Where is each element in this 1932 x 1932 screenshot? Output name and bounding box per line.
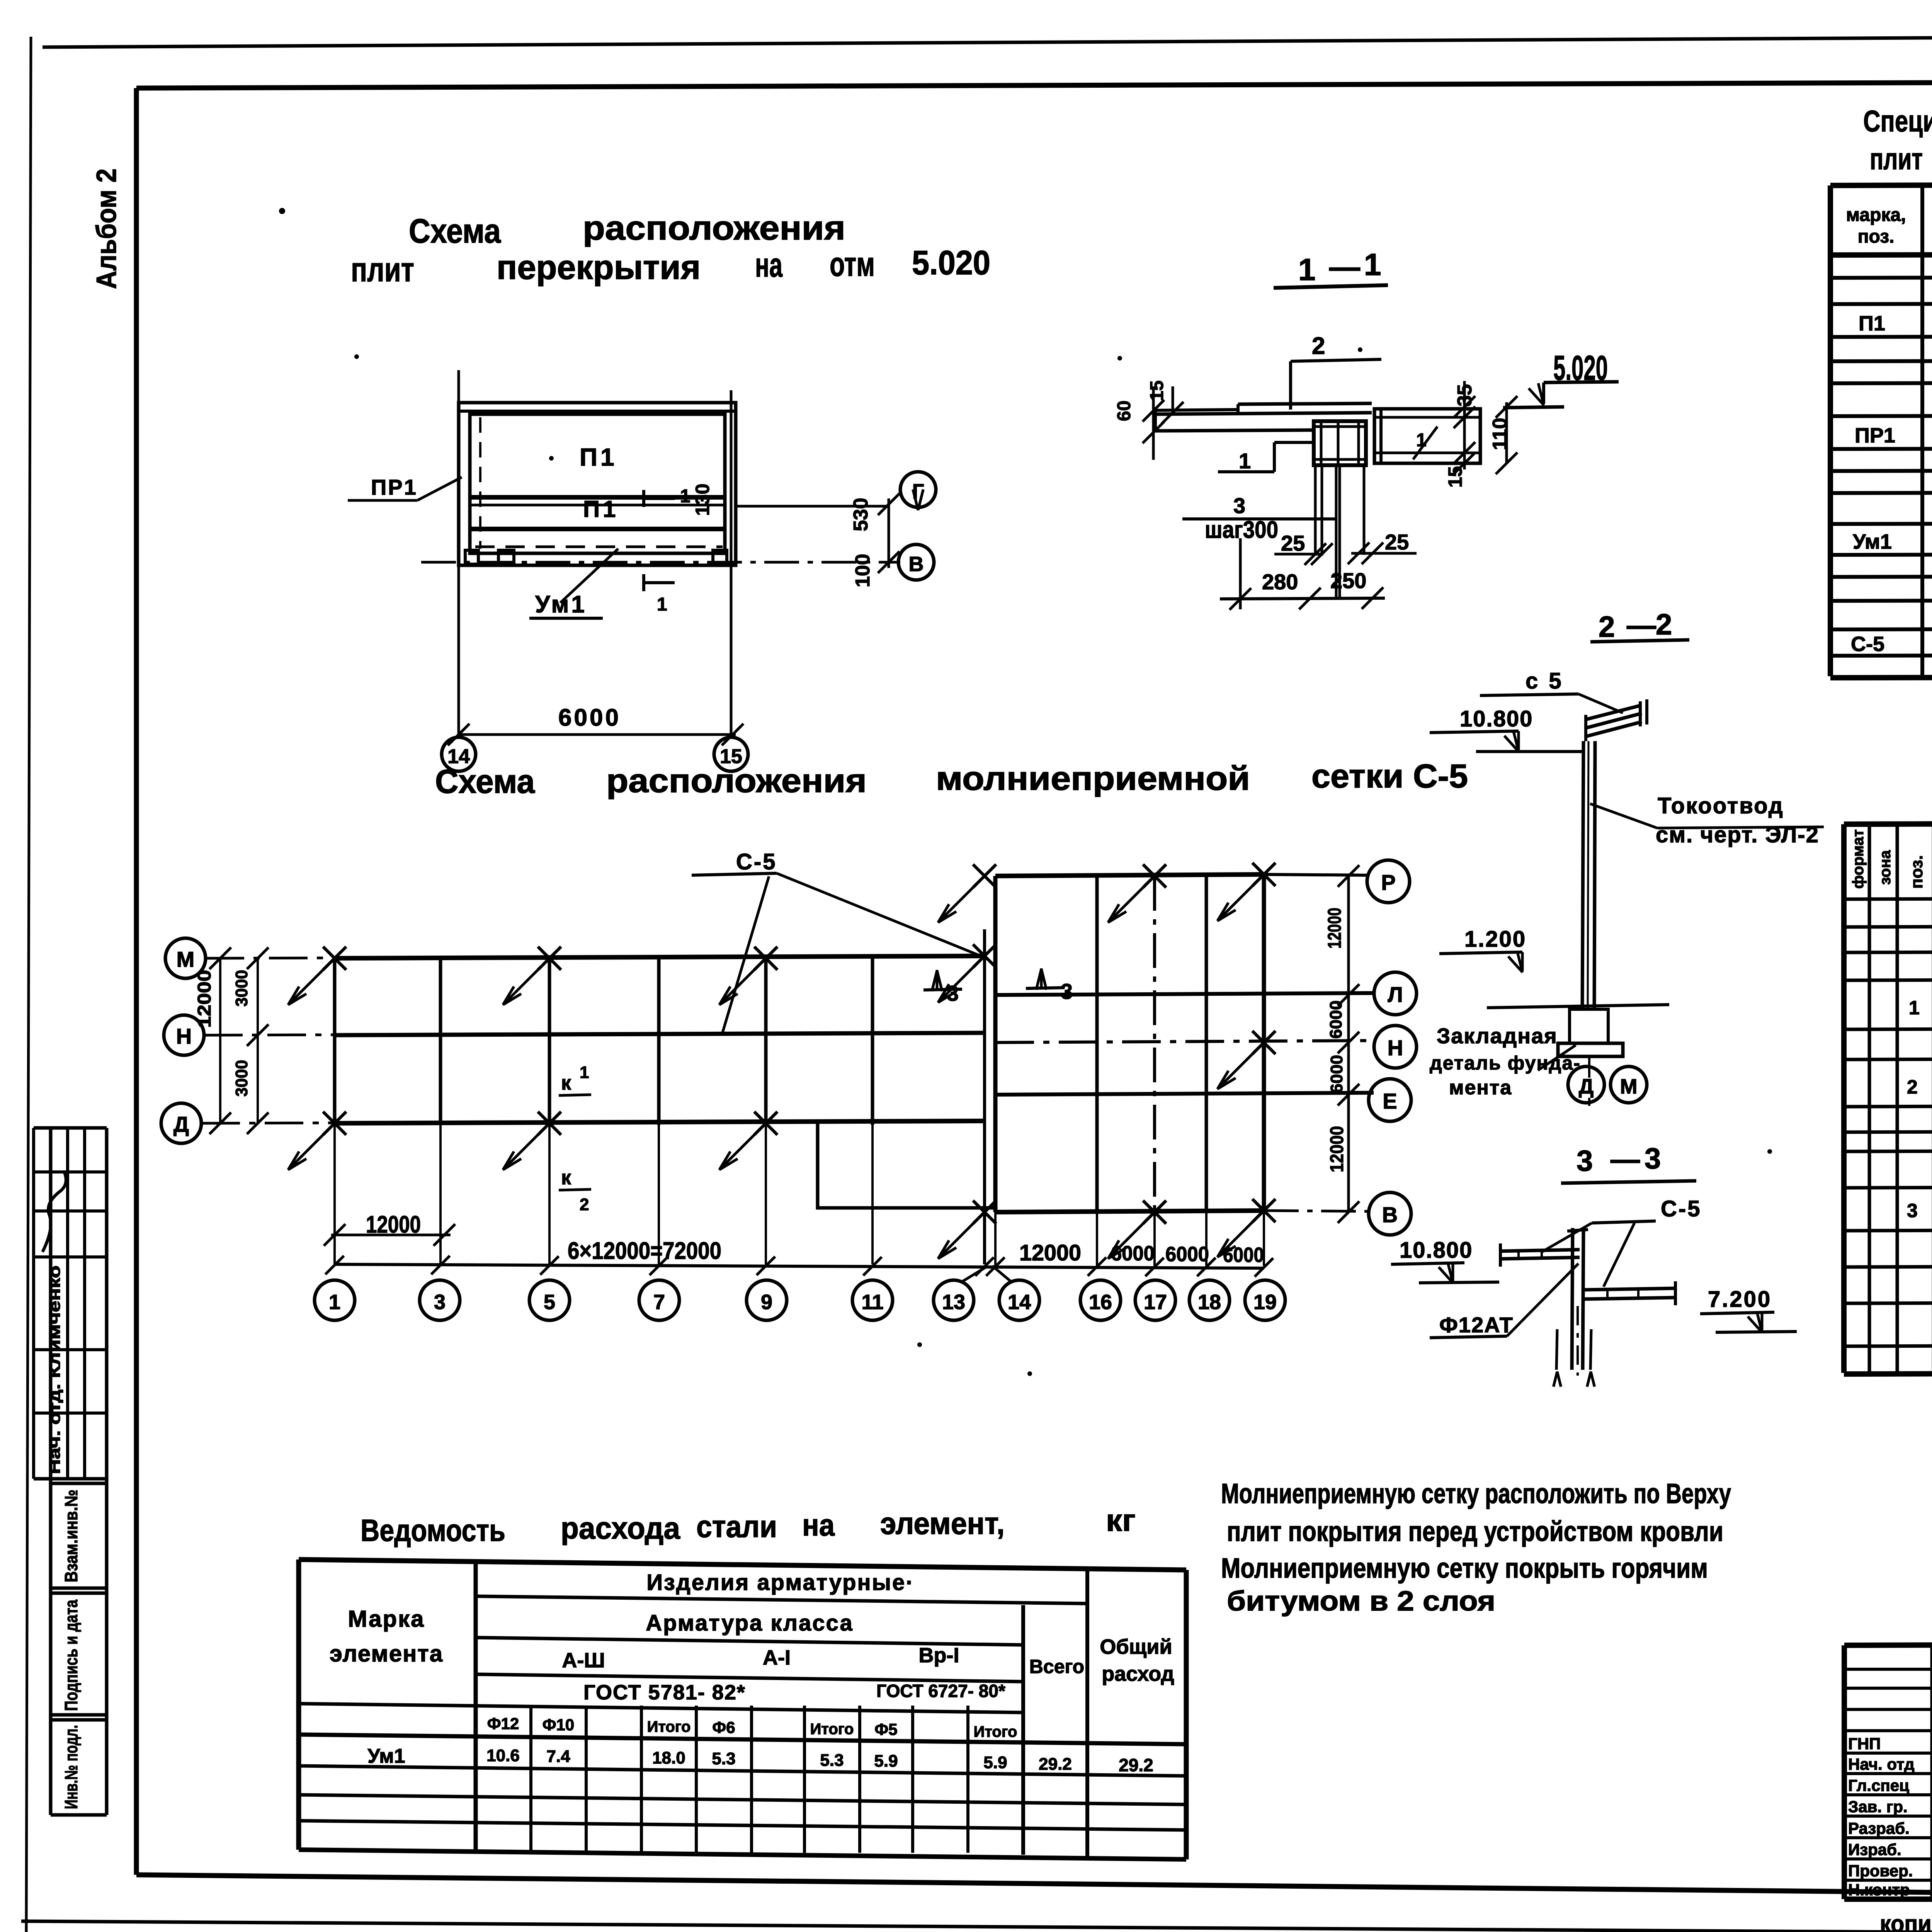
svg-text:формат: формат <box>1850 829 1867 889</box>
svg-text:Р: Р <box>1381 870 1395 895</box>
svg-text:М: М <box>1620 1075 1638 1098</box>
section cut mark 1 lower <box>644 581 675 584</box>
svg-text:битумом в 2 слоя: битумом в 2 слоя <box>1227 1586 1495 1617</box>
grid circle 15 <box>714 737 748 771</box>
svg-text:3000: 3000 <box>232 1060 251 1097</box>
svg-text:2: 2 <box>1656 608 1672 641</box>
svg-text:7.200: 7.200 <box>1708 1287 1772 1312</box>
right grid circle Л <box>1374 972 1417 1015</box>
svg-text:Гл.спец: Гл.спец <box>1848 1776 1909 1794</box>
bottom step notch <box>818 1123 995 1208</box>
svg-text:1: 1 <box>1298 252 1316 287</box>
svg-text:5.9: 5.9 <box>983 1753 1007 1772</box>
left stamp bold block Подпись и дата <box>51 1592 107 1595</box>
svg-text:15: 15 <box>1147 381 1167 401</box>
svg-text:5.3: 5.3 <box>712 1749 735 1768</box>
svg-text:3: 3 <box>434 1291 446 1314</box>
svg-text:мента: мента <box>1449 1077 1512 1099</box>
section 1-1 column box with rebar <box>1314 421 1366 465</box>
svg-text:Разраб.: Разраб. <box>1848 1819 1910 1837</box>
section 1-1 right beam <box>1374 409 1480 463</box>
axis dash-dot lines rows М Н Д <box>206 956 985 958</box>
left grid circle М <box>165 938 206 978</box>
svg-text:6000: 6000 <box>1111 1242 1155 1265</box>
axis vertical line 14 <box>457 370 460 737</box>
svg-text:1: 1 <box>680 486 690 507</box>
svg-text:5.9: 5.9 <box>874 1752 898 1770</box>
svg-text:расход: расход <box>1102 1662 1174 1685</box>
svg-text:Е: Е <box>1383 1089 1397 1113</box>
svg-text:Д: Д <box>1579 1075 1594 1098</box>
svg-text:деталь фунда-: деталь фунда- <box>1430 1052 1581 1074</box>
column base and foundation <box>1570 1009 1608 1043</box>
column double lines <box>1582 741 1583 1008</box>
svg-text:перекрытия: перекрытия <box>497 248 701 286</box>
svg-text:19: 19 <box>1253 1291 1277 1314</box>
section 1-1 slab left <box>1154 410 1238 410</box>
svg-text:2: 2 <box>1312 333 1325 359</box>
ведомость table grid <box>299 1560 1186 1570</box>
svg-text:5.3: 5.3 <box>820 1751 844 1770</box>
svg-text:1: 1 <box>657 594 667 615</box>
right grid circle В <box>1369 1192 1411 1235</box>
svg-text:Израб.: Израб. <box>1848 1840 1901 1859</box>
svg-text:плит покрытия перед устрой: плит покрытия перед устройством кровли <box>1227 1516 1723 1547</box>
title block signature column lines <box>1930 1645 1932 1899</box>
3-3 left beam <box>1499 1250 1580 1251</box>
left margin stamp table <box>34 1126 107 1130</box>
svg-text:Итого: Итого <box>810 1721 854 1738</box>
svg-text:1: 1 <box>1416 430 1427 451</box>
svg-text:с 5: с 5 <box>1526 668 1564 694</box>
right grid circle Е <box>1369 1079 1411 1121</box>
grid circle М <box>1611 1066 1647 1103</box>
svg-text:Токоотвод: Токоотвод <box>1658 793 1784 818</box>
svg-text:Д: Д <box>173 1112 189 1136</box>
axis line row В dash-dot <box>421 561 900 564</box>
dimension 6000 line <box>459 733 736 736</box>
ведомость vertical lines <box>296 1560 301 1850</box>
svg-text:С-5: С-5 <box>1661 1196 1701 1221</box>
svg-text:Подпись и дата: Подпись и дата <box>61 1600 81 1711</box>
svg-text:Спецификация: Спецификация <box>1863 104 1932 138</box>
grid circle Г <box>900 472 936 507</box>
bottom dimension line with ticks <box>335 1264 1264 1268</box>
ground level line at 1.200 <box>1487 1005 1669 1008</box>
svg-text:П1: П1 <box>1859 312 1885 335</box>
svg-text:17: 17 <box>1144 1291 1167 1314</box>
svg-text:60: 60 <box>1114 401 1134 421</box>
svg-text:3: 3 <box>1645 1142 1661 1175</box>
svg-text:Итого: Итого <box>647 1718 691 1735</box>
svg-text:6×12000=72000: 6×12000=72000 <box>568 1238 721 1264</box>
svg-text:плит: плит <box>1870 142 1923 176</box>
outer page border left <box>26 37 31 1932</box>
svg-text:Общий: Общий <box>1100 1635 1172 1658</box>
Ум1 table grid <box>1844 822 1932 824</box>
svg-text:к: к <box>561 1072 571 1094</box>
svg-text:молниеприемной: молниеприемной <box>936 760 1250 797</box>
left stamp bold block Инв № подл <box>51 1718 107 1722</box>
svg-text:Ф10: Ф10 <box>543 1716 575 1734</box>
svg-text:ГНП: ГНП <box>1848 1735 1881 1753</box>
svg-text:6000: 6000 <box>1327 1000 1345 1039</box>
svg-text:7: 7 <box>653 1291 665 1314</box>
right grid circle Р <box>1367 860 1410 903</box>
stray scan dots <box>279 208 285 214</box>
right block horizontal Е <box>995 1093 1374 1095</box>
svg-text:копировала: Булах: копировала: Булах <box>1880 1911 1932 1932</box>
specification table grid <box>1830 183 1932 185</box>
svg-text:16: 16 <box>1089 1291 1112 1314</box>
svg-text:Схема: Схема <box>409 212 501 250</box>
svg-text:В: В <box>1382 1202 1398 1227</box>
left stamp bold block Взам инв <box>51 1482 107 1485</box>
svg-text:ПР1: ПР1 <box>1855 424 1895 447</box>
svg-text:100: 100 <box>852 554 874 587</box>
svg-text:элемента: элемента <box>330 1641 443 1667</box>
svg-text:Провер.: Провер. <box>1848 1862 1913 1880</box>
svg-text:М: М <box>177 947 195 971</box>
svg-text:Ум1: Ум1 <box>535 591 587 618</box>
svg-text:130: 130 <box>692 484 713 516</box>
svg-text:Взам.инв.№: Взам.инв.№ <box>61 1490 81 1582</box>
svg-text:Итого: Итого <box>974 1723 1017 1740</box>
svg-text:6000: 6000 <box>558 704 621 731</box>
svg-text:3: 3 <box>1233 493 1245 518</box>
svg-text:Ф6: Ф6 <box>712 1718 735 1736</box>
svg-text:Арматура класса: Арматура класса <box>646 1611 853 1636</box>
svg-text:сетки С-5: сетки С-5 <box>1311 758 1468 795</box>
svg-text:А-І: А-І <box>763 1646 791 1669</box>
svg-text:280: 280 <box>1262 570 1298 594</box>
svg-text:поз.: поз. <box>1907 855 1926 889</box>
svg-text:15: 15 <box>1444 466 1466 488</box>
svg-text:Ум1: Ум1 <box>1853 530 1892 553</box>
outer page border top <box>43 34 1932 47</box>
svg-text:3: 3 <box>1577 1145 1593 1177</box>
svg-text:Всего: Всего <box>1029 1656 1084 1677</box>
svg-text:Ф5: Ф5 <box>874 1720 897 1738</box>
svg-text:1: 1 <box>329 1291 340 1314</box>
svg-text:9: 9 <box>761 1291 772 1314</box>
3-3 right beam lower <box>1583 1288 1677 1290</box>
svg-text:Схема: Схема <box>435 763 535 800</box>
svg-text:Ум1: Ум1 <box>367 1745 405 1767</box>
svg-text:2: 2 <box>1907 1076 1918 1098</box>
svg-text:12000: 12000 <box>1325 908 1345 949</box>
svg-text:10.800: 10.800 <box>1400 1238 1473 1263</box>
leader stubs from circles 13 14 to axis <box>961 1266 988 1282</box>
grid circle Д <box>1568 1066 1604 1103</box>
svg-text:—: — <box>1627 609 1656 642</box>
right block verticals 16 17 18 <box>1095 876 1099 1212</box>
svg-text:5: 5 <box>544 1291 555 1314</box>
svg-text:Инв.№ подл.: Инв.№ подл. <box>61 1725 81 1809</box>
svg-text:зона: зона <box>1877 850 1894 885</box>
svg-text:Ведомость: Ведомость <box>361 1513 505 1548</box>
svg-text:12000: 12000 <box>1327 1126 1347 1172</box>
svg-text:3: 3 <box>947 981 959 1005</box>
svg-text:ГОСТ 5781- 82*: ГОСТ 5781- 82* <box>583 1681 746 1704</box>
svg-text:3: 3 <box>1061 979 1073 1003</box>
roof slab slanted <box>1586 706 1640 719</box>
svg-text:Ф12АТ: Ф12АТ <box>1439 1313 1514 1337</box>
svg-text:530: 530 <box>850 498 872 531</box>
svg-text:—: — <box>1611 1143 1640 1176</box>
svg-text:250: 250 <box>1330 568 1366 593</box>
svg-text:Н.контр: Н.контр <box>1848 1881 1910 1899</box>
svg-text:1: 1 <box>580 1063 589 1082</box>
3-3 vertical post <box>1572 1228 1573 1370</box>
svg-text:Молниеприемную сетку распол: Молниеприемную сетку расположить по Верх… <box>1221 1478 1731 1509</box>
right side vertical dim line <box>1347 876 1350 1212</box>
svg-text:Л: Л <box>1388 982 1403 1007</box>
svg-text:14: 14 <box>1008 1291 1031 1314</box>
left block mesh horizontals М Н Д <box>335 956 985 958</box>
grid circle 14 <box>442 737 476 771</box>
svg-text:Вр-І: Вр-І <box>919 1644 959 1667</box>
svg-text:25: 25 <box>1281 531 1305 555</box>
svg-text:на: на <box>755 246 783 284</box>
leader токоотвод <box>1590 804 1657 828</box>
svg-text:Зав. гр.: Зав. гр. <box>1848 1798 1908 1816</box>
svg-text:расположения: расположения <box>606 762 867 799</box>
svg-text:расположения: расположения <box>583 209 845 247</box>
svg-text:Н: Н <box>176 1024 192 1048</box>
plan view: slab layout rectangle <box>459 403 736 565</box>
svg-text:6000: 6000 <box>1165 1243 1209 1266</box>
left block axis extension lines down to dim line <box>333 1123 336 1264</box>
svg-text:29.2: 29.2 <box>1119 1755 1153 1775</box>
title block outer <box>1844 1643 1932 1645</box>
left grid circle Н <box>164 1015 204 1055</box>
svg-text:марка,: марка, <box>1846 205 1906 225</box>
svg-text:плит: плит <box>351 250 414 289</box>
svg-text:к: к <box>561 1167 571 1189</box>
inner frame thick border <box>136 80 1932 88</box>
svg-text:Альбом 2: Альбом 2 <box>91 168 122 289</box>
svg-text:Нач. отд. Климченко: Нач. отд. Климченко <box>46 1265 63 1474</box>
svg-text:3: 3 <box>1907 1200 1918 1221</box>
svg-text:стали: стали <box>696 1509 777 1544</box>
svg-text:Н: Н <box>1388 1036 1403 1060</box>
section cut mark 1 upper <box>644 497 675 500</box>
svg-text:ГОСТ 6727- 80*: ГОСТ 6727- 80* <box>876 1681 1005 1701</box>
outer page border bottom <box>21 1921 1932 1932</box>
svg-text:расхода: расхода <box>561 1511 680 1545</box>
svg-text:Ф12: Ф12 <box>487 1714 519 1733</box>
bottom grid circles <box>315 1280 355 1320</box>
right block extension lines to dim line <box>1096 1212 1098 1266</box>
svg-text:18.0: 18.0 <box>652 1748 685 1767</box>
svg-text:12000: 12000 <box>194 970 215 1028</box>
svg-text:—: — <box>1329 250 1360 284</box>
svg-text:10.6: 10.6 <box>486 1746 520 1765</box>
svg-text:11: 11 <box>861 1291 883 1314</box>
svg-text:1.200: 1.200 <box>1464 927 1526 952</box>
right block horizontal Л <box>995 993 1374 995</box>
svg-text:5.020: 5.020 <box>912 243 990 282</box>
svg-text:6000: 6000 <box>1223 1243 1264 1267</box>
svg-text:1: 1 <box>1364 247 1381 282</box>
svg-text:18: 18 <box>1198 1291 1221 1314</box>
svg-text:6000: 6000 <box>1327 1055 1346 1093</box>
svg-text:25: 25 <box>1385 530 1409 554</box>
left grid circle Д <box>161 1103 201 1143</box>
axis 13-14 double vertical <box>983 929 986 1264</box>
right block horizontal Н dash-dot <box>995 1041 1374 1043</box>
svg-text:29.2: 29.2 <box>1039 1755 1072 1774</box>
crosses with arrows on mesh <box>323 947 346 970</box>
axis vertical line 15 <box>730 390 733 737</box>
svg-text:3000: 3000 <box>232 970 251 1007</box>
svg-text:А-Ш: А-Ш <box>562 1649 605 1672</box>
svg-text:ПР1: ПР1 <box>371 475 418 499</box>
svg-text:Нач. отд: Нач. отд <box>1848 1755 1915 1773</box>
support pads bottom corners <box>465 550 478 564</box>
svg-text:2: 2 <box>1599 611 1615 643</box>
svg-text:П1: П1 <box>583 496 619 522</box>
plan: vertical dashed line left <box>479 417 481 549</box>
svg-text:отм: отм <box>830 245 875 283</box>
3-3 bottom details <box>1577 1306 1579 1376</box>
svg-text:поз.: поз. <box>1858 226 1895 247</box>
left block mesh verticals <box>333 957 337 1125</box>
grid circle В <box>898 544 934 580</box>
svg-text:2: 2 <box>580 1195 589 1214</box>
section 1-1 left step outline <box>1274 441 1314 444</box>
svg-text:С-5: С-5 <box>1851 633 1884 656</box>
svg-text:С-5: С-5 <box>736 849 777 874</box>
svg-text:Закладная: Закладная <box>1437 1024 1558 1048</box>
leader lines from right block to circles <box>1264 874 1367 875</box>
svg-text:Марка: Марка <box>348 1606 425 1632</box>
leader закладная деталь <box>1538 1045 1576 1070</box>
svg-text:1: 1 <box>1909 997 1920 1019</box>
svg-text:П1: П1 <box>580 443 617 471</box>
svg-text:1: 1 <box>1239 449 1251 473</box>
svg-text:см. черт. ЭЛ-2: см. черт. ЭЛ-2 <box>1656 822 1819 847</box>
right grid circle Н <box>1374 1026 1417 1068</box>
svg-text:на: на <box>802 1508 835 1542</box>
svg-text:7.4: 7.4 <box>546 1747 570 1766</box>
svg-text:Изделия арматурные·: Изделия арматурные· <box>646 1570 914 1595</box>
right block outline <box>995 874 1264 876</box>
svg-text:элемент,: элемент, <box>880 1506 1005 1541</box>
svg-text:Молниеприемную сетку покр: Молниеприемную сетку покрыть горячим <box>1221 1553 1708 1584</box>
svg-text:12000: 12000 <box>1019 1240 1081 1265</box>
rebar verticals extending down <box>1314 465 1317 556</box>
svg-text:13: 13 <box>942 1291 965 1314</box>
svg-text:10.800: 10.800 <box>1460 706 1533 731</box>
svg-text:кг: кг <box>1106 1503 1136 1537</box>
svg-text:В: В <box>909 553 924 576</box>
